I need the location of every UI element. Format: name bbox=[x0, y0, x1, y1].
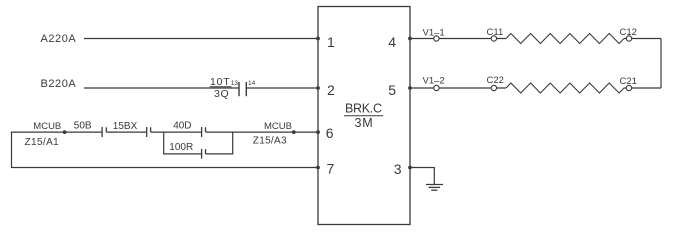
wire pin 5 to resistor bbox=[410, 87, 506, 89]
value label BRK.C/3M bbox=[344, 102, 383, 131]
terminal circle C11 bbox=[491, 36, 496, 41]
svg-text:3M: 3M bbox=[355, 116, 374, 130]
svg-text:Z15/A1: Z15/A1 bbox=[25, 137, 60, 148]
capacitor contact plates 13-14 bbox=[239, 82, 246, 96]
junction dot MCUB left bbox=[63, 130, 67, 134]
wire contact 100R to branch right bbox=[206, 153, 234, 155]
wire A220A to pin 1 bbox=[84, 38, 318, 40]
pin 4 bbox=[388, 34, 412, 50]
svg-text:100R: 100R bbox=[169, 142, 193, 153]
resistor C22-C21 bbox=[506, 83, 624, 93]
pin 5 bbox=[388, 82, 412, 98]
svg-text:C22: C22 bbox=[487, 75, 504, 86]
contact 15BX bbox=[147, 127, 151, 137]
junction dot MCUB right bbox=[292, 130, 296, 134]
pin 3 bbox=[394, 161, 412, 177]
wire branch bottom to contact 100R bbox=[163, 153, 202, 155]
pin 2 bbox=[316, 82, 335, 98]
wire rail to pin 7 bbox=[11, 167, 318, 169]
contact 100R bbox=[202, 149, 206, 159]
wire contact 50B to contact 15BX bbox=[106, 131, 146, 133]
wire branch up right bbox=[232, 132, 234, 154]
wire resistor to right corner bbox=[624, 38, 661, 40]
svg-text:50B: 50B bbox=[74, 120, 92, 131]
svg-text:14: 14 bbox=[248, 80, 256, 87]
terminal circle C22 bbox=[491, 85, 496, 90]
svg-text:4: 4 bbox=[388, 34, 396, 50]
contact 40D bbox=[202, 127, 206, 137]
left rail wire bbox=[11, 132, 13, 167]
terminal circle C21 bbox=[626, 85, 631, 90]
svg-text:Z15/A3: Z15/A3 bbox=[253, 135, 287, 146]
svg-text:1: 1 bbox=[327, 34, 335, 50]
svg-text:3: 3 bbox=[394, 161, 402, 177]
pin 7 bbox=[316, 161, 334, 177]
wire contact 15BX to contact 40D bbox=[151, 131, 202, 133]
wire right edge vertical bbox=[660, 39, 662, 89]
svg-text:MCUB: MCUB bbox=[33, 121, 61, 132]
svg-text:MCUB: MCUB bbox=[264, 121, 292, 132]
svg-text:7: 7 bbox=[327, 161, 335, 177]
wire rail to contact 50B bbox=[11, 131, 102, 133]
terminal circle V1-1 bbox=[434, 36, 439, 41]
wire resistor to right corner lower bbox=[624, 87, 661, 89]
wire branch down left bbox=[163, 132, 165, 154]
svg-text:6: 6 bbox=[326, 125, 334, 141]
breaker box U1 BRK.C bbox=[318, 7, 410, 225]
contact 50B bbox=[102, 127, 106, 137]
svg-text:15BX: 15BX bbox=[113, 121, 138, 132]
wire contact 40D to pin 6 bbox=[206, 131, 319, 133]
svg-text:A220A: A220A bbox=[41, 33, 77, 45]
terminal circle V1-2 bbox=[434, 85, 439, 90]
svg-text:3Q: 3Q bbox=[214, 88, 229, 100]
terminal circle C12 bbox=[626, 36, 631, 41]
svg-text:BRK.C: BRK.C bbox=[345, 102, 382, 116]
wire pin 3 to ground bbox=[410, 168, 434, 185]
wire B220A to capacitor bbox=[84, 87, 239, 89]
svg-text:2: 2 bbox=[327, 82, 335, 98]
svg-text:V1–2: V1–2 bbox=[423, 76, 445, 87]
wire capacitor to pin 2 bbox=[246, 87, 318, 89]
svg-text:13: 13 bbox=[231, 80, 239, 87]
ground bbox=[426, 185, 443, 191]
svg-text:5: 5 bbox=[388, 82, 396, 98]
pin 6 bbox=[316, 125, 334, 141]
svg-text:B220A: B220A bbox=[41, 78, 77, 90]
svg-text:40D: 40D bbox=[173, 121, 191, 132]
wire pin 4 to resistor bbox=[410, 38, 506, 40]
value label 10T/3Q bbox=[210, 76, 232, 100]
resistor C11-C12 bbox=[506, 34, 624, 44]
pin 1 bbox=[316, 34, 335, 50]
